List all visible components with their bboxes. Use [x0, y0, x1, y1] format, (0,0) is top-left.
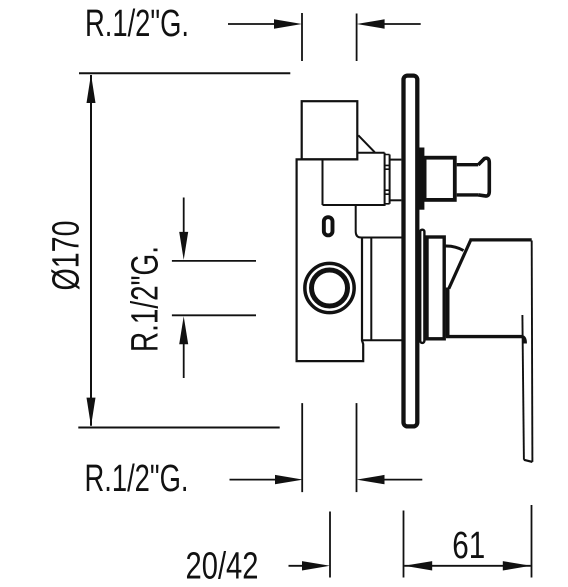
blade right edge: [531, 241, 534, 462]
pipe top edge: [358, 152, 385, 154]
dim arrow top right-pointing: [228, 23, 278, 25]
svg-text:R.1/2"G.: R.1/2"G.: [85, 458, 189, 500]
pipe bottom edge: [323, 204, 385, 206]
extension line top: [79, 72, 290, 74]
mid arrow down: [183, 198, 185, 234]
handle rosette: [420, 230, 424, 343]
blade left edge: [522, 315, 524, 460]
mid arrow up: [183, 343, 185, 378]
neck top line: [390, 159, 402, 161]
step corner to housing: [356, 206, 403, 238]
arrowhead D170 up: [87, 74, 96, 103]
neck bottom line: [390, 199, 402, 201]
arrowhead D170 down: [87, 398, 96, 427]
oval slot: [324, 217, 333, 235]
tick 61 left: [403, 511, 405, 578]
svg-text:R.1/2"G.: R.1/2"G.: [85, 3, 189, 45]
pipe inner left edge: [322, 159, 324, 205]
blade bottom tip: [524, 460, 533, 462]
lever slant edge: [449, 240, 471, 289]
svg-text:Ø170: Ø170: [46, 221, 88, 291]
handle base: [427, 237, 444, 339]
mid extension line upper: [172, 260, 256, 262]
chamfer diagonal: [358, 135, 375, 152]
lever top edge: [470, 238, 532, 241]
diverter knob base: [425, 158, 455, 200]
collar thread bands: [385, 165, 390, 194]
diverter flange bar: [419, 148, 424, 210]
pipe right edge: [384, 153, 386, 206]
bottom dim tick 2: [356, 403, 358, 492]
extension line bottom: [78, 427, 279, 429]
housing left edge: [370, 238, 372, 341]
20/42 arrow right-pointing: [289, 565, 306, 567]
61 dim line: [404, 565, 531, 567]
outlet circle inner: [312, 270, 348, 306]
dim tick top 2: [356, 14, 358, 62]
lever heel edge: [446, 288, 450, 337]
bottom dim right-pointing arrow: [230, 479, 279, 481]
dim tick top 1: [301, 13, 303, 61]
svg-text:61: 61: [452, 525, 485, 567]
outlet circle outer: [305, 263, 354, 312]
svg-text:20/42: 20/42: [186, 545, 259, 587]
lever joint arc: [445, 246, 464, 251]
tick 61 right: [531, 505, 533, 578]
faucet body top square inlet: [302, 101, 358, 159]
collar right edge: [389, 155, 391, 204]
collar top/bottom connectors: [385, 155, 390, 204]
diverter knob cap: [478, 158, 489, 196]
svg-text:R.1/2"G.: R.1/2"G.: [124, 246, 166, 352]
body outline: [297, 159, 364, 361]
bottom dim left-pointing arrow: [357, 475, 385, 484]
tick 20/42: [329, 512, 331, 578]
dim arrow top left-pointing: [357, 19, 385, 28]
dim line D170 vertical: [90, 75, 92, 426]
mid extension line lower: [172, 314, 256, 316]
housing bottom edge: [361, 339, 402, 341]
bottom dim tick 1: [301, 403, 303, 492]
lever bottom edge: [446, 337, 525, 344]
diverter knob neck: [457, 165, 479, 195]
wall plate: [404, 76, 418, 427]
